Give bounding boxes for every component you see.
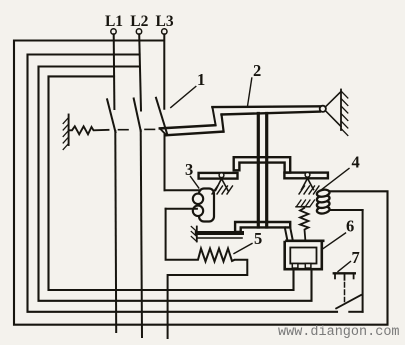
- svg-text:www.diangon.com: www.diangon.com: [278, 325, 400, 340]
- svg-text:4: 4: [352, 153, 360, 172]
- svg-text:6: 6: [346, 217, 354, 236]
- svg-text:L3: L3: [156, 13, 174, 30]
- svg-text:3: 3: [185, 160, 193, 179]
- svg-text:L1: L1: [105, 13, 123, 30]
- svg-text:1: 1: [197, 70, 205, 89]
- svg-text:7: 7: [352, 248, 360, 267]
- svg-text:2: 2: [253, 61, 261, 80]
- svg-text:5: 5: [254, 229, 262, 248]
- svg-text:L2: L2: [130, 13, 148, 30]
